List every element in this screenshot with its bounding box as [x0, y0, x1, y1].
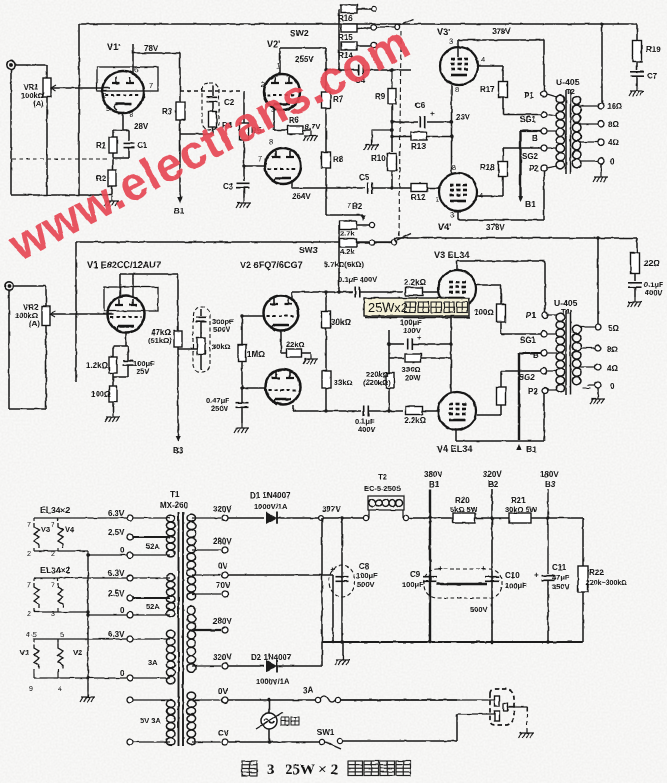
terminal 0 ch2	[595, 382, 601, 388]
resistor R3	[176, 103, 185, 120]
wire V1' plate up	[132, 44, 134, 75]
wire 5V terminal b	[133, 741, 170, 743]
wire to 0 terminal g2	[88, 614, 127, 616]
wire to B2	[326, 214, 360, 216]
svg-text:3A: 3A	[303, 686, 313, 695]
wire jack2 to VR2	[13, 285, 46, 287]
terminal SG2 ch2	[541, 368, 547, 374]
wire winding 320V 518	[192, 517, 221, 519]
core line 1	[565, 90, 567, 174]
wire winding 320V 666	[192, 665, 221, 667]
wire 47k top	[177, 274, 179, 331]
svg-text:3: 3	[449, 37, 453, 46]
heater filament V2	[58, 644, 63, 669]
dash shield line input	[12, 158, 109, 160]
wire to R6	[274, 129, 288, 131]
wire 30k to 33k	[325, 328, 327, 371]
junction CT bus	[331, 640, 334, 643]
svg-text:B1: B1	[526, 444, 537, 454]
choke terminal right	[403, 515, 408, 520]
ground heater bus	[80, 692, 95, 702]
badge cjk glyph 1	[405, 302, 416, 313]
secondary coil T2	[572, 96, 581, 168]
wire V3 to 100ohm	[476, 284, 501, 286]
wire plate to C5	[292, 187, 365, 189]
SW2 tap 2	[371, 25, 376, 30]
heater filament group2 b	[58, 583, 63, 608]
wire to 22k	[281, 352, 286, 354]
svg-text:52A: 52A	[146, 602, 160, 611]
ground C7	[629, 86, 644, 96]
wire VR2 bottom	[45, 325, 47, 409]
capacitor C11 plates	[542, 576, 555, 581]
dash-dot boundary C2 network	[180, 90, 243, 92]
svg-text:T2: T2	[378, 473, 388, 482]
wire heater group1 return	[34, 550, 88, 552]
svg-text:4: 4	[58, 686, 62, 693]
caption cjk glyph 3	[380, 761, 395, 776]
wire C7 to ground	[636, 76, 638, 86]
wire VR2 wiper to V1 grid	[50, 313, 114, 315]
arrow B1 feed	[177, 197, 183, 203]
svg-text:B2: B2	[488, 480, 499, 489]
wire 78V to R3	[133, 52, 180, 54]
svg-text:EL34×2: EL34×2	[40, 565, 71, 575]
ground secondary ch2	[590, 394, 605, 404]
svg-text:400V: 400V	[645, 288, 663, 297]
svg-text:D2 1N4007: D2 1N4007	[251, 653, 292, 662]
svg-text:R9: R9	[375, 92, 386, 101]
wire box left edge ch1	[78, 24, 80, 195]
yellow badge 25Wx2	[364, 298, 469, 316]
wire P2 riser ch2	[543, 393, 545, 441]
SW3 arm	[397, 234, 411, 241]
wire 5V terminal a	[133, 699, 170, 701]
svg-text:397V: 397V	[322, 505, 341, 514]
wire ground bus	[322, 641, 583, 643]
wire jack2 bottom	[9, 408, 46, 410]
svg-text:52A: 52A	[146, 542, 160, 551]
wire to SG1 ch2	[501, 333, 541, 335]
svg-text:2: 2	[27, 611, 31, 618]
wire R18 top	[502, 148, 504, 161]
svg-text:C11: C11	[552, 563, 567, 572]
wire R4 bottom	[212, 127, 214, 134]
svg-text:B3: B3	[173, 446, 184, 455]
svg-text:B3: B3	[545, 480, 556, 489]
svg-text:7: 7	[51, 582, 55, 589]
terminal 4 ohm	[598, 139, 604, 145]
wire B3 bus vertical	[547, 489, 549, 574]
junction 1M grid	[240, 314, 243, 317]
wire cap to gnd	[634, 287, 636, 297]
wire fuse to plug riser	[341, 699, 457, 701]
SW3 common	[391, 239, 396, 244]
svg-text:25Wx2: 25Wx2	[368, 300, 408, 315]
svg-text:500V: 500V	[470, 605, 488, 614]
svg-text:SG2: SG2	[519, 373, 536, 382]
wire ground to R13 node	[372, 129, 392, 131]
resistor R17	[499, 82, 508, 98]
stub B	[547, 130, 557, 132]
potentiometer VR1	[43, 78, 51, 97]
svg-text:EC-5-250S: EC-5-250S	[364, 484, 401, 493]
wire 2.7k to tap	[357, 224, 369, 226]
svg-text:1000V/1A: 1000V/1A	[254, 502, 288, 511]
terminal 8 ohm	[598, 121, 604, 127]
SW2 tap 1	[371, 6, 376, 11]
plug pin 1	[495, 696, 500, 706]
terminal P1	[541, 91, 547, 97]
caption figure 3	[242, 761, 257, 776]
heater winding 4 5V	[166, 700, 175, 745]
wire down to C4 junction	[325, 48, 327, 70]
wire fb down	[338, 262, 340, 292]
wire rail to R19	[636, 24, 638, 40]
choke T2 box	[368, 496, 404, 510]
wire B2 bus vertical	[491, 489, 493, 642]
svg-text:8: 8	[452, 163, 456, 172]
svg-text:0: 0	[120, 546, 125, 555]
capacitor 300pF	[196, 317, 207, 321]
wire cap bottom	[127, 365, 129, 377]
wire C6 right	[427, 121, 452, 123]
capacitor 0.1uF lower	[364, 406, 369, 417]
wire R16 to tap	[357, 8, 371, 10]
svg-text:8Ω: 8Ω	[607, 345, 618, 354]
wire 100ohm top	[500, 285, 502, 304]
ground R6	[303, 131, 318, 141]
svg-text:V1': V1'	[107, 42, 120, 52]
svg-text:7: 7	[347, 203, 351, 210]
capacitor C1	[124, 143, 135, 147]
wire to 100uF	[389, 343, 404, 345]
wire R7 to R8	[325, 108, 327, 152]
HV winding upper	[187, 514, 196, 600]
wire to R22	[582, 518, 584, 566]
wire 22ohm to cap	[634, 274, 636, 282]
svg-text:B1: B1	[429, 480, 440, 489]
wire R18 bottom	[502, 177, 504, 197]
wire cathode bus	[451, 85, 453, 173]
junction R10 grid wire	[390, 186, 393, 189]
resistor R8	[322, 152, 331, 168]
wire 220k bottom	[388, 388, 390, 411]
junction 30k top	[324, 290, 327, 293]
primary coil T2	[556, 95, 565, 169]
resistor R5	[240, 123, 249, 140]
svg-text:MX-260: MX-260	[160, 501, 189, 510]
junction R5/C3/grid	[242, 164, 245, 167]
svg-text:C10: C10	[505, 571, 520, 580]
ground C3	[236, 198, 251, 208]
svg-text:2.5V: 2.5V	[108, 589, 125, 598]
svg-text:B: B	[533, 351, 539, 360]
terminal 70V 594	[222, 591, 228, 597]
resistor R14	[341, 42, 357, 50]
junction lamp bottom	[267, 740, 270, 743]
wire VR1 top	[46, 65, 48, 78]
core line 2 ch2	[570, 310, 572, 395]
terminal CV 742	[222, 739, 228, 745]
svg-text:2: 2	[51, 551, 55, 558]
junction NFB ch2	[596, 236, 599, 239]
stub P2 ch2	[547, 389, 557, 391]
svg-text:C6: C6	[415, 101, 426, 110]
svg-text:R21: R21	[511, 496, 526, 505]
svg-text:C3: C3	[223, 182, 234, 191]
resistor R16	[341, 5, 357, 13]
svg-text:SG2: SG2	[522, 152, 539, 161]
capacitor C5	[368, 183, 373, 194]
stub P2	[547, 166, 557, 168]
svg-text:6.3V: 6.3V	[108, 630, 125, 639]
secondary coil ch2	[572, 325, 581, 385]
SW2 tap 3	[371, 42, 376, 47]
svg-text:U-405: U-405	[556, 77, 580, 87]
wire cathode bus left	[388, 330, 390, 373]
wire SG2 ch2	[501, 370, 541, 372]
wire plate to P1 riser ch2	[457, 260, 545, 262]
svg-text:R20: R20	[455, 496, 470, 505]
wire B1 bus ch2	[518, 353, 520, 440]
wire V3' pin4 to R17	[477, 65, 503, 67]
wire to V2 lower grid	[242, 387, 266, 389]
resistor 100 ohm V4	[497, 387, 506, 405]
svg-text:SW2: SW2	[290, 28, 309, 38]
terminal 0	[598, 158, 604, 164]
stub SG1	[547, 115, 557, 117]
badge shadow line	[365, 317, 470, 319]
terminal 0	[127, 675, 133, 681]
wire bus to ground	[342, 642, 344, 655]
svg-text:7: 7	[258, 154, 262, 163]
terminal 0	[127, 552, 133, 558]
wire heater 6.3V	[133, 517, 170, 519]
wire NFB rail ch2	[76, 241, 394, 243]
wire jack ground side	[10, 69, 12, 195]
svg-text:1: 1	[435, 195, 439, 204]
svg-text:(A): (A)	[29, 319, 40, 328]
terminal SG2	[541, 145, 547, 151]
wire D1 out	[277, 517, 318, 519]
stub SG1 ch2	[547, 333, 557, 335]
stub 5ohm	[580, 326, 595, 328]
wire B to bus	[521, 130, 542, 132]
wire 1.2k bottom	[112, 373, 114, 377]
caption cjk glyph 4	[396, 761, 411, 776]
svg-text:SG1: SG1	[520, 115, 537, 124]
wire plug ground	[508, 706, 528, 708]
capacitor C7	[630, 72, 644, 76]
terminal B ch2	[541, 350, 547, 356]
wire V2' cathode down	[273, 110, 275, 130]
stub P1	[547, 94, 557, 97]
svg-text:20W: 20W	[405, 373, 421, 382]
svg-text:2.2kΩ: 2.2kΩ	[404, 416, 427, 425]
wire 330ohm right	[421, 357, 451, 359]
svg-text:SG1: SG1	[520, 336, 537, 345]
wire R2 to ground bus	[111, 186, 113, 195]
shield box V1'	[97, 67, 158, 91]
ground 22k	[303, 354, 318, 364]
wire to C6	[392, 121, 418, 123]
wire 1M top	[241, 316, 243, 345]
svg-text:9: 9	[29, 686, 33, 693]
power plug outline	[490, 689, 514, 725]
svg-text:+: +	[534, 571, 539, 580]
wire heater 0	[133, 614, 170, 616]
svg-text:25V: 25V	[136, 367, 149, 376]
wire R17 top	[502, 66, 504, 82]
wire winding 280V 550	[192, 549, 221, 551]
svg-text:30kΩ: 30kΩ	[212, 342, 231, 351]
caption cjk glyph 1	[348, 761, 363, 776]
svg-text:B1: B1	[525, 199, 536, 209]
svg-text:1.2kΩ: 1.2kΩ	[86, 361, 109, 370]
stub 8ohm	[580, 123, 598, 125]
arrow B1 ch2	[516, 444, 522, 450]
wire heater 6.3V	[133, 638, 170, 640]
wire to cathode cap	[127, 346, 129, 360]
terminal 16 ohm	[598, 103, 604, 109]
switch SW1 left	[319, 739, 324, 744]
triode V1'	[102, 71, 144, 113]
heater filament V3	[34, 523, 39, 548]
badge cjk glyph 4	[444, 302, 455, 313]
svg-text:+: +	[481, 564, 486, 573]
wire V4 screen res bottom	[500, 405, 502, 415]
wire 30k top	[325, 292, 327, 311]
wire ground stub	[371, 130, 373, 140]
stub P1 ch2	[547, 314, 557, 316]
svg-text:C5: C5	[359, 173, 370, 182]
triode V1	[108, 296, 145, 333]
terminal 5V winding a	[127, 697, 133, 703]
wire C11 to bus	[547, 580, 549, 642]
primary coil ch2	[556, 313, 565, 392]
capacitor 0.1uF zobel	[628, 283, 642, 287]
resistor 4.2k	[340, 239, 357, 247]
svg-text:7: 7	[149, 81, 153, 90]
svg-text:1MΩ: 1MΩ	[247, 350, 265, 359]
svg-text:7: 7	[27, 522, 31, 529]
wire heaters to 6.3V	[34, 517, 127, 519]
dashed can 300pF 30k	[193, 307, 210, 372]
wire V2 cathode down	[280, 331, 282, 353]
wire to SG1	[503, 114, 541, 116]
badge cjk glyph 5	[457, 302, 468, 313]
svg-text:4: 4	[481, 55, 485, 64]
svg-text:400V: 400V	[358, 425, 376, 434]
junction NFB rail	[600, 22, 603, 25]
junction lamp	[267, 698, 270, 701]
svg-text:B1: B1	[174, 207, 185, 216]
wire B1 bus vertical	[429, 489, 431, 642]
junction cap 100uF	[387, 342, 390, 345]
resistor 2.7k	[340, 221, 357, 229]
svg-text:7: 7	[51, 522, 55, 529]
terminal 2.5V	[127, 534, 133, 540]
terminal 5V winding b	[127, 739, 133, 745]
svg-text:C8: C8	[359, 562, 370, 571]
wire R3 to B1	[179, 120, 181, 198]
resistor R20 5k 5W	[453, 513, 475, 523]
wire B3 to R22	[548, 517, 583, 519]
shield box V1	[104, 287, 158, 311]
wire 16ohm tap to NFB rail	[601, 24, 603, 103]
switch SW1 arm	[325, 742, 341, 749]
svg-text:378V: 378V	[492, 27, 511, 36]
svg-text:3: 3	[267, 762, 275, 778]
svg-text:P2: P2	[529, 164, 539, 173]
svg-text:2: 2	[27, 551, 31, 558]
wire to C1	[128, 130, 130, 141]
wire to 0.1uF	[292, 291, 353, 293]
VR2 wiper arrow	[50, 311, 55, 317]
svg-text:4.2k: 4.2k	[340, 247, 355, 256]
svg-text:0: 0	[120, 606, 125, 615]
badge cjk glyph 2	[418, 302, 429, 313]
svg-text:100Ω: 100Ω	[474, 308, 494, 317]
wire NFB rail ch1	[79, 23, 370, 25]
stub B ch2	[547, 352, 557, 354]
fuse terminal right	[335, 697, 340, 702]
SW2 arm	[399, 19, 413, 25]
svg-text:V4: V4	[65, 525, 75, 534]
svg-text:320V: 320V	[213, 505, 232, 514]
wire to R2	[112, 158, 114, 170]
SW2 common	[394, 24, 399, 29]
wire 0.1uF to 2.2k	[360, 291, 403, 293]
svg-text:220k~300kΩ: 220k~300kΩ	[586, 580, 627, 587]
wire B1 bus thick	[519, 131, 521, 199]
wire heater 0	[133, 554, 170, 556]
capacitor C8 plates	[336, 577, 349, 582]
wire 33k bottom	[325, 388, 327, 411]
wire D2 to 397V node	[321, 518, 323, 666]
triode V2 lower	[266, 370, 301, 406]
svg-text:7: 7	[27, 582, 31, 589]
wire R14 to tap	[357, 45, 371, 47]
wire to C4	[326, 69, 358, 71]
svg-text:V1 E82CC/12AU7: V1 E82CC/12AU7	[87, 260, 161, 270]
wire C5 to R12	[372, 187, 411, 189]
wire cathode bus ch2	[450, 302, 452, 392]
wire winding 280V 630	[192, 629, 221, 631]
wire plug riser	[456, 714, 458, 741]
ground ch2 input	[105, 412, 120, 422]
dashed can C2 R4	[202, 83, 219, 130]
svg-text:4·5: 4·5	[26, 630, 37, 639]
wire jack to VR1	[15, 64, 47, 66]
svg-text:350V: 350V	[552, 582, 570, 591]
svg-text:320V: 320V	[483, 470, 502, 479]
wire C8 branch	[341, 518, 343, 642]
svg-text:B: B	[532, 134, 538, 143]
choke T2 coil	[369, 500, 403, 507]
capacitor C9 plates	[423, 577, 437, 582]
wire V2 lower plate	[292, 405, 294, 411]
svg-text:6.3V: 6.3V	[108, 569, 125, 578]
wire cathode node	[113, 129, 129, 131]
wire cap to res	[200, 322, 202, 338]
resistor R15	[341, 24, 357, 32]
arrow B1	[518, 196, 524, 202]
input jack J1'	[7, 61, 15, 69]
potentiometer VR2	[42, 307, 50, 326]
junction C6	[390, 120, 393, 123]
